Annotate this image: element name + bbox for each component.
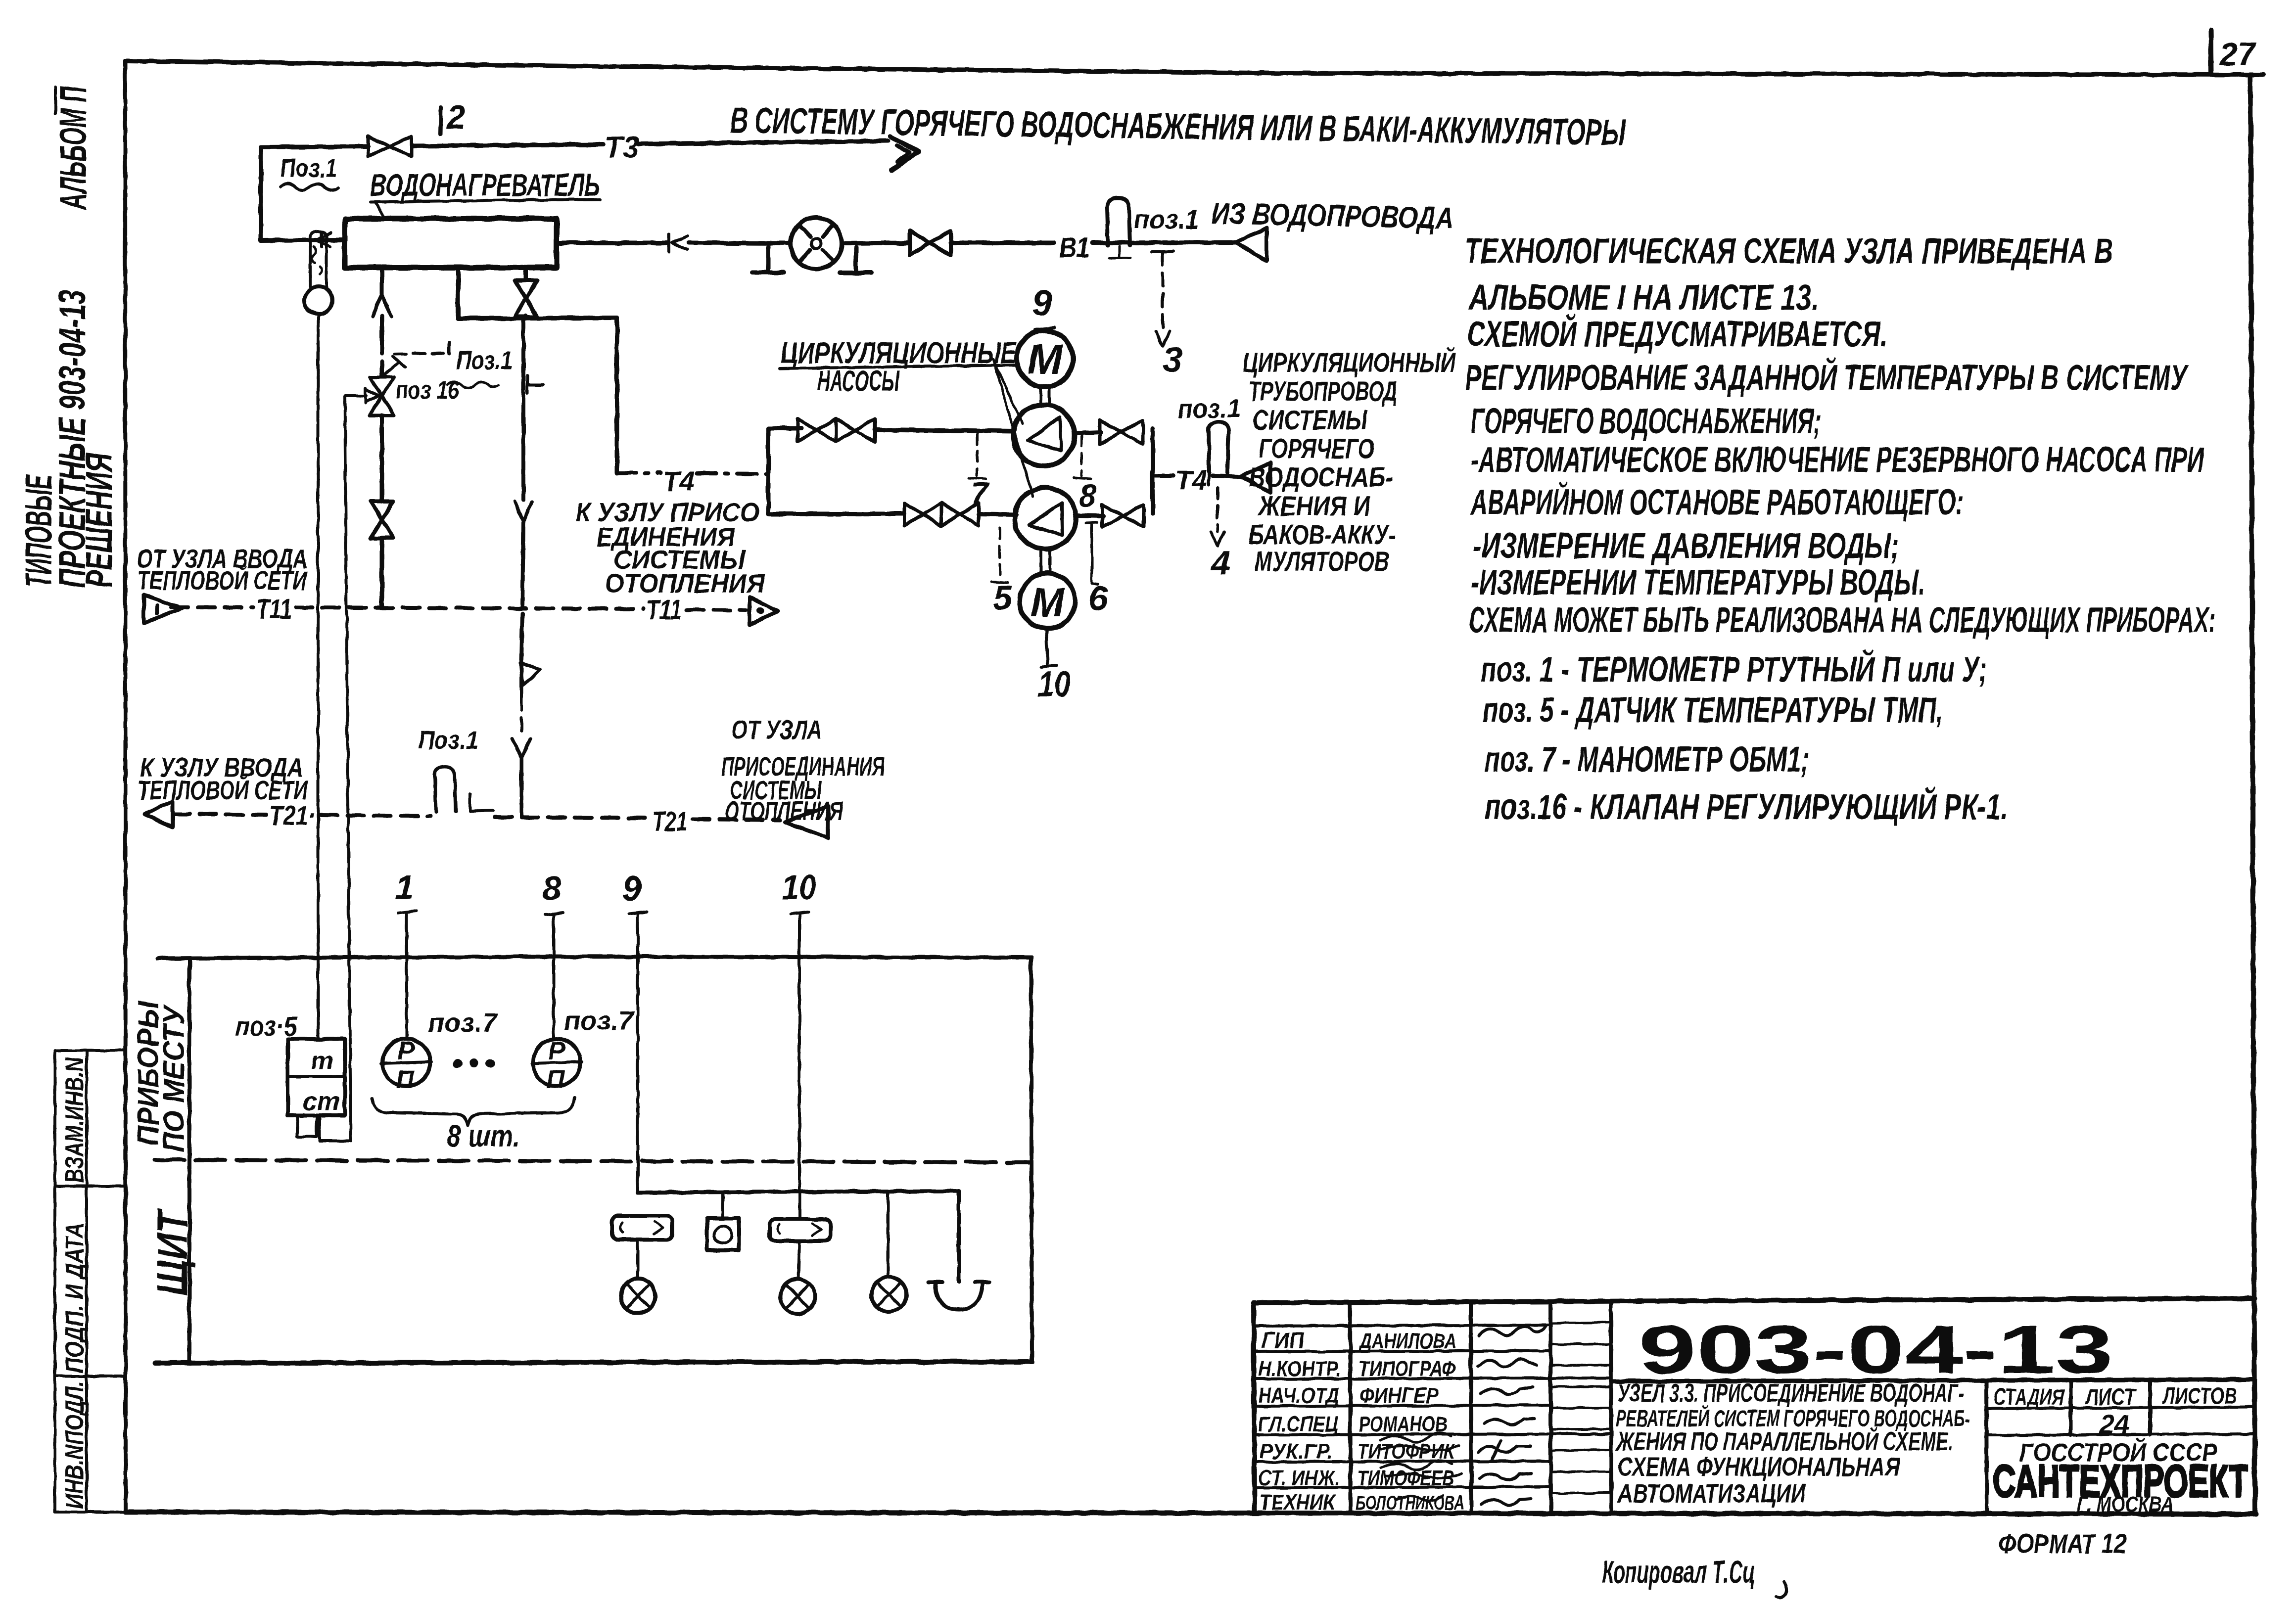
- brace 8 шт: [372, 1098, 575, 1126]
- frame left border: [125, 61, 126, 1513]
- svg-text:ЦИРКУЛЯЦИОННЫЙ: ЦИРКУЛЯЦИОННЫЙ: [1243, 347, 1456, 378]
- temperature sensor поз.5 box: [288, 1039, 345, 1115]
- funnel arrow T21 out: [145, 801, 173, 827]
- svg-text:поз. 7 - МАНОМЕТР ОБМ1;: поз. 7 - МАНОМЕТР ОБМ1;: [1485, 740, 1809, 780]
- svg-text:поз·5: поз·5: [235, 1010, 298, 1042]
- svg-text:М: М: [1031, 580, 1065, 625]
- wire: heater inlet riser (поз.16 line): [380, 268, 384, 294]
- svg-text:ГЛ.СПЕЦ: ГЛ.СПЕЦ: [1258, 1412, 1338, 1436]
- funnel arrow T11 in: [144, 595, 182, 623]
- svg-text:-ИЗМЕРЕНИЕ ДАВЛЕНИЯ ВОДЫ;: -ИЗМЕРЕНИЕ ДАВЛЕНИЯ ВОДЫ;: [1473, 526, 1899, 566]
- wire: down to T4 level: [615, 318, 619, 473]
- svg-text:Т4: Т4: [1175, 464, 1207, 496]
- wire to pump1: [875, 430, 1013, 431]
- svg-text:Н.КОНТР.: Н.КОНТР.: [1258, 1357, 1341, 1381]
- svg-text:8 шт.: 8 шт.: [447, 1119, 520, 1153]
- manometer PI (поз.7) first: [382, 1039, 430, 1086]
- svg-text:Р: Р: [548, 1037, 565, 1065]
- wire: heater left pipe: [261, 147, 345, 240]
- svg-text:ПО МЕСТУ: ПО МЕСТУ: [157, 1004, 190, 1152]
- svg-text:АЛЬБОМЕ I НА ЛИСТЕ 13.: АЛЬБОМЕ I НА ЛИСТЕ 13.: [1468, 278, 1819, 318]
- svg-text:РУК.ГР.: РУК.ГР.: [1260, 1439, 1333, 1464]
- thermometer Поз.1 on B1: [1107, 198, 1130, 245]
- svg-text:ИЗ ВОДОПРОВОДА: ИЗ ВОДОПРОВОДА: [1211, 196, 1454, 235]
- title block columns: [1350, 1301, 1611, 1514]
- shaft M1-pump1: [1040, 387, 1049, 404]
- svg-text:ОТ УЗЛА: ОТ УЗЛА: [731, 715, 822, 745]
- svg-text:СТАДИЯ: СТАДИЯ: [1994, 1384, 2064, 1410]
- node 3: pressure tap with arrow: [1152, 251, 1173, 252]
- svg-text:В1: В1: [1059, 231, 1090, 264]
- wire: controller line down to поз.5: [345, 396, 351, 1141]
- wire below RK valve: [380, 415, 384, 502]
- svg-text:МУЛЯТОРОВ: МУЛЯТОРОВ: [1255, 546, 1389, 577]
- manometer PI (поз.7) second: [533, 1039, 580, 1086]
- node 6 pressure tap: [1086, 522, 1097, 584]
- svg-text:Копировал Т.Сц: Копировал Т.Сц: [1602, 1554, 1755, 1590]
- wire B1: [842, 243, 910, 243]
- panel table left vertical: [187, 959, 191, 1364]
- svg-text:24: 24: [2099, 1410, 2129, 1439]
- svg-text:9: 9: [1032, 282, 1052, 323]
- wire: left riser of pump block: [766, 428, 771, 513]
- svg-text:поз.1: поз.1: [1177, 395, 1241, 423]
- valve V4 upper branch: [836, 419, 875, 442]
- scribble over names rows 5-7: [1380, 1433, 1459, 1450]
- svg-text:ЛИСТОВ: ЛИСТОВ: [2162, 1383, 2237, 1409]
- svg-text:поз.1: поз.1: [1134, 205, 1199, 234]
- svg-text:ТИПОГРАФ: ТИПОГРАФ: [1359, 1357, 1456, 1381]
- wire: heating return drop from heater to T21: [521, 318, 525, 500]
- svg-text:УЗЕЛ 3.3. ПРИСОЕДИНЕНИЕ ВОДОНА: УЗЕЛ 3.3. ПРИСОЕДИНЕНИЕ ВОДОНАГ-: [1618, 1379, 1964, 1408]
- svg-text:5: 5: [993, 578, 1013, 617]
- wire: heater outlet down: [458, 268, 617, 319]
- svg-text:поз.7: поз.7: [564, 1006, 635, 1036]
- svg-text:ГОРЯЧЕГО: ГОРЯЧЕГО: [1259, 433, 1374, 464]
- water heater vessel: [345, 219, 557, 268]
- gate valve (кран) on B1: [791, 218, 842, 269]
- svg-text:СХЕМА МОЖЕТ БЫТЬ РЕАЛИЗОВАНА Н: СХЕМА МОЖЕТ БЫТЬ РЕАЛИЗОВАНА НА СЛЕДУЮЩИ…: [1469, 600, 2216, 640]
- relay block 2: [769, 1219, 831, 1241]
- thermometer TE at heater (Поз.1) stem: [310, 231, 327, 286]
- svg-text:-ИЗМЕРЕНИИ ТЕМПЕРАТУРЫ ВОДЫ.: -ИЗМЕРЕНИИ ТЕМПЕРАТУРЫ ВОДЫ.: [1471, 563, 1925, 602]
- wire T21 dashed continue: [495, 817, 649, 818]
- signature scribbles: [1479, 1326, 1546, 1335]
- svg-text:-АВТОМАТИЧЕСКОЕ ВКЛЮЧЕНИЕ РЕЗЕ: -АВТОМАТИЧЕСКОЕ ВКЛЮЧЕНИЕ РЕЗЕРВНОГО НАС…: [1471, 440, 2204, 480]
- svg-text:Поз.1: Поз.1: [280, 153, 337, 183]
- svg-text:АВАРИЙНОМ ОСТАНОВЕ РАБОТАЮЩЕГО: АВАРИЙНОМ ОСТАНОВЕ РАБОТАЮЩЕГО:: [1470, 481, 1964, 522]
- wire: T4 right exit: [1153, 474, 1173, 478]
- wire: B1 cold water pipe from heater: [557, 241, 668, 245]
- svg-text:9: 9: [622, 869, 642, 908]
- title block rows left: [1254, 1325, 1611, 1488]
- svg-text:поз.7: поз.7: [428, 1008, 499, 1038]
- wire: T3 line valve to label: [413, 144, 603, 146]
- title block small date rows: [1550, 1323, 1611, 1493]
- svg-text:4: 4: [1210, 544, 1230, 582]
- svg-text:СХЕМОЙ ПРЕДУСМАТРИВАЕТСЯ.: СХЕМОЙ ПРЕДУСМАТРИВАЕТСЯ.: [1467, 313, 1887, 354]
- wire B1 to label: [951, 241, 1054, 245]
- svg-text:СИСТЕМЫ: СИСТЕМЫ: [1253, 404, 1368, 435]
- node 4 drop: [1216, 487, 1219, 531]
- title block outer: [1254, 1298, 2255, 1303]
- svg-text:П: П: [546, 1065, 565, 1094]
- svg-text:ПОДП. И ДАТА: ПОДП. И ДАТА: [60, 1223, 89, 1373]
- svg-text:ТРУБОПРОВОД: ТРУБОПРОВОД: [1249, 375, 1397, 407]
- panel table top line: [157, 957, 1031, 959]
- svg-text:ЖЕНИЯ И: ЖЕНИЯ И: [1257, 490, 1371, 521]
- page number tick: [2211, 30, 2211, 74]
- wire B1 label to inlet funnel: [1092, 242, 1235, 243]
- node 10 drop below M2: [1041, 629, 1057, 667]
- node 8 pressure tap: [1080, 435, 1083, 476]
- svg-text:Г. МОСКВА: Г. МОСКВА: [2077, 1492, 2174, 1516]
- svg-text:27: 27: [2218, 36, 2257, 72]
- shutoff valve X under heater: [524, 268, 528, 318]
- svg-text:3: 3: [1163, 340, 1182, 380]
- wire T11 dashed: [171, 605, 253, 609]
- svg-text:Т21·: Т21·: [269, 800, 316, 831]
- frame top border: [127, 61, 2263, 75]
- svg-text:ФИНГЕР: ФИНГЕР: [1359, 1383, 1439, 1408]
- outlet funnel T4: [1241, 463, 1270, 493]
- svg-text:поз. 1 - ТЕРМОМЕТР РТУТНЫЙ: поз. 1 - ТЕРМОМЕТР РТУТНЫЙ П или У;: [1481, 648, 1987, 689]
- svg-text:Т3: Т3: [605, 131, 639, 164]
- wire B1: [689, 243, 791, 243]
- thermometer Поз.1 on T4: [1209, 422, 1228, 473]
- wire: upper branch left: [768, 426, 801, 431]
- panel table divider (dashed): [155, 1160, 1031, 1162]
- svg-text:СТ. ИНЖ.: СТ. ИНЖ.: [1258, 1466, 1340, 1490]
- frame right border: [2250, 77, 2255, 1514]
- svg-text:АЛЬБОМ П: АЛЬБОМ П: [52, 86, 94, 210]
- wire T21 dashed: [173, 814, 266, 815]
- valve V7 lower branch: [941, 503, 979, 526]
- wire: right riser of pump block: [1151, 428, 1155, 513]
- sensor box tab: [297, 1115, 317, 1137]
- svg-text:ФОРМАТ 12: ФОРМАТ 12: [1999, 1528, 2126, 1559]
- svg-text:ТЕХНИК: ТЕХНИК: [1260, 1490, 1336, 1514]
- svg-text:ГИП: ГИП: [1262, 1328, 1305, 1353]
- funnel arrow T21 from heating: [785, 806, 828, 838]
- svg-text:Р: Р: [398, 1037, 415, 1065]
- wire: T4 dash-dot to pump block: [617, 471, 661, 475]
- svg-text:903-04-13: 903-04-13: [1639, 1312, 2113, 1388]
- wire: TE capillary down to поз.5: [317, 314, 320, 1039]
- arrow up into heater: [373, 294, 391, 317]
- node 5 pressure tap: [999, 528, 1001, 580]
- callout lines to pumps: [993, 359, 1033, 497]
- svg-text:ВОДОНАГРЕВАТЕЛЬ: ВОДОНАГРЕВАТЕЛЬ: [370, 167, 600, 203]
- svg-text:ТЕХНОЛОГИЧЕСКАЯ СХЕМА УЗЛА: ТЕХНОЛОГИЧЕСКАЯ СХЕМА УЗЛА ПРИВЕДЕНА В: [1465, 231, 2113, 271]
- wire to pump2: [979, 514, 1016, 515]
- arrow check on B1: [669, 234, 688, 252]
- lamp HL2: [798, 1241, 799, 1279]
- svg-text:поз. 5 - ДАТЧИК ТЕМПЕРАТУРЫ Т: поз. 5 - ДАТЧИК ТЕМПЕРАТУРЫ ТМП,: [1483, 690, 1943, 730]
- lamp HL1: [636, 1239, 639, 1279]
- svg-text:8: 8: [1079, 478, 1097, 513]
- valve stand T right: [840, 247, 872, 273]
- svg-text:10: 10: [782, 868, 816, 907]
- svg-text:ДАНИЛОВА: ДАНИЛОВА: [1358, 1329, 1456, 1353]
- inlet funnel arrow (из водопровода): [1235, 229, 1266, 261]
- thermometer bulb: [305, 286, 332, 314]
- svg-text:Т11: Т11: [256, 593, 292, 624]
- thermometer tap tick on return: [527, 376, 543, 394]
- svg-text:М: М: [1027, 336, 1064, 383]
- motor M1: [1017, 330, 1073, 387]
- svg-text:РЕГУЛИРОВАНИЕ ЗАДАННОЙ ТЕМПЕРА: РЕГУЛИРОВАНИЕ ЗАДАННОЙ ТЕМПЕРАТУРЫ В СИС…: [1465, 357, 2189, 398]
- dashed branch to Поз.1 label: [394, 353, 448, 354]
- svg-text:2: 2: [446, 98, 466, 136]
- svg-text:8: 8: [542, 869, 562, 908]
- panel table right vertical: [1031, 958, 1032, 1362]
- svg-text:ТЕПЛОВОЙ СЕТИ: ТЕПЛОВОЙ СЕТИ: [138, 565, 307, 596]
- arrow into left riser: [316, 232, 330, 247]
- svg-text:ОТОПЛЕНИЯ: ОТОПЛЕНИЯ: [605, 569, 766, 598]
- title block rows right: [1611, 1379, 2255, 1381]
- arrow T11 to heating connection: [750, 597, 778, 625]
- svg-text:ГОРЯЧЕГО ВОДОСНАБЖЕНИЯ;: ГОРЯЧЕГО ВОДОСНАБЖЕНИЯ;: [1471, 402, 1821, 441]
- svg-text:Т4: Т4: [663, 465, 695, 497]
- pump P1: [1013, 405, 1075, 466]
- node 7 pressure tap: [976, 433, 979, 476]
- svg-text:ОТОПЛЕНИЯ: ОТОПЛЕНИЯ: [725, 796, 843, 826]
- relay block Q: [707, 1218, 739, 1250]
- svg-text:Т11: Т11: [646, 594, 682, 625]
- wire pump1 to valve: [1075, 432, 1101, 433]
- svg-text:П: П: [396, 1065, 415, 1094]
- panel table bottom line: [155, 1362, 1032, 1363]
- left document strip: [55, 1051, 126, 1512]
- wire: T3 line label to arrow: [639, 141, 888, 144]
- wire riser to T11: [380, 538, 384, 607]
- svg-text:ВОДОСНАБ-: ВОДОСНАБ-: [1249, 461, 1393, 493]
- svg-text:6: 6: [1088, 579, 1108, 618]
- svg-text:ст: ст: [303, 1087, 340, 1116]
- valve V3 upper branch: [797, 419, 836, 442]
- bus line in Щит row: [638, 1191, 959, 1282]
- shaft pump2-M2: [1041, 550, 1050, 574]
- svg-text:НАСОСЫ: НАСОСЫ: [817, 365, 900, 397]
- relay block 1: [612, 1216, 672, 1239]
- valve V8 lower right: [1102, 505, 1144, 527]
- svg-text:т: т: [311, 1047, 333, 1075]
- svg-text:НАЧ.ОТД: НАЧ.ОТД: [1258, 1383, 1339, 1408]
- dots between manometers: [453, 1059, 462, 1068]
- control valve RK-1 (поз.16): [370, 377, 394, 415]
- frame bottom border: [126, 1512, 2256, 1514]
- valve V5 upper right: [1100, 420, 1143, 444]
- valve V6 lower branch: [904, 503, 941, 526]
- svg-text:7: 7: [971, 476, 990, 511]
- svg-text:10: 10: [1038, 665, 1071, 704]
- svg-text:поз 16: поз 16: [396, 376, 460, 404]
- wire pump2 to valve: [1076, 515, 1103, 516]
- motor M2: [1020, 573, 1075, 629]
- wire: lower branch left: [768, 512, 904, 516]
- valve V1 on T3 line: [368, 137, 412, 156]
- svg-text:ЛИСТ: ЛИСТ: [2085, 1384, 2137, 1410]
- arrow T3 flow: [890, 137, 918, 170]
- svg-text:ЖЕНИЯ ПО ПАРАЛЛЕЛЬНОЙ СХЕМЕ.: ЖЕНИЯ ПО ПАРАЛЛЕЛЬНОЙ СХЕМЕ.: [1616, 1426, 1953, 1456]
- svg-text:1: 1: [395, 868, 414, 907]
- svg-text:АВТОМАТИЗАЦИИ: АВТОМАТИЗАЦИИ: [1617, 1479, 1806, 1509]
- svg-text:СХЕМА ФУНКЦИОНАЛЬНАЯ: СХЕМА ФУНКЦИОНАЛЬНАЯ: [1618, 1452, 1900, 1482]
- svg-text:ВЗАМ.ИНВ.N: ВЗАМ.ИНВ.N: [60, 1057, 89, 1183]
- svg-text:ИНВ.NПОДЛ.: ИНВ.NПОДЛ.: [60, 1381, 89, 1509]
- svg-text:Т21: Т21: [652, 806, 688, 837]
- svg-text:поз.16 - КЛАПАН РЕГУЛИРУЮЩИЙ: поз.16 - КЛАПАН РЕГУЛИРУЮЩИЙ РК-1.: [1485, 786, 2008, 827]
- arrow down on return: [515, 502, 532, 521]
- arrow down on return to T21: [513, 739, 530, 758]
- bell HA: [929, 1282, 989, 1310]
- svg-text:ЩИТ: ЩИТ: [149, 1208, 196, 1296]
- wire: T3 line from riser corner to valve: [261, 146, 368, 147]
- pump P2: [1015, 488, 1076, 549]
- shutoff valve X on riser: [371, 502, 393, 538]
- flow restrictor flag on return: [520, 660, 540, 697]
- sensor hook connection: [320, 1115, 351, 1141]
- svg-text:Поз.1: Поз.1: [418, 726, 478, 755]
- svg-text:РЕШЕНИЯ: РЕШЕНИЯ: [78, 453, 120, 588]
- valve stand T left: [752, 247, 784, 273]
- svg-text:Поз.1: Поз.1: [456, 346, 513, 375]
- lamp HL3: [887, 1191, 890, 1277]
- arrow from controller into RK valve: [345, 388, 379, 403]
- valve V2 on B1: [910, 230, 951, 256]
- tick label 2: [440, 107, 441, 135]
